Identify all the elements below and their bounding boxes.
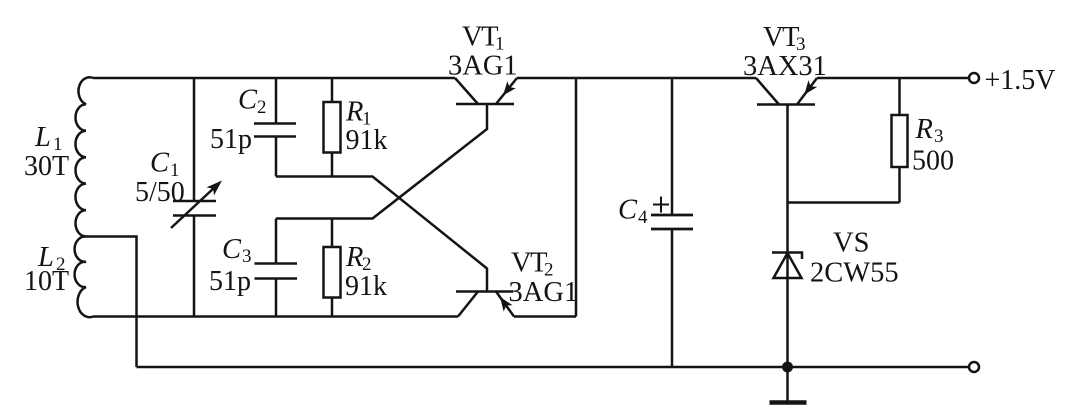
svg-text:30T: 30T [24, 151, 69, 182]
wire top rail middle segment [517, 77, 756, 80]
wire tap from coil [86, 237, 137, 368]
terminal +1.5V [969, 73, 979, 83]
capacitor C1 plates [173, 201, 216, 216]
transistor VT1 [456, 103, 514, 106]
svg-text:R: R [345, 97, 363, 128]
junction dot [782, 362, 793, 373]
wire cross coupling upper (to VT2 base) [276, 177, 487, 292]
svg-text:3: 3 [242, 246, 252, 267]
inductor L1 [75, 77, 93, 236]
svg-text:L: L [34, 122, 51, 153]
svg-text:VS: VS [833, 228, 869, 259]
svg-text:91k: 91k [346, 125, 388, 156]
svg-text:3AG1: 3AG1 [509, 277, 579, 308]
wire bottom wire [93, 315, 458, 318]
wire base to R3 bottom [788, 201, 900, 204]
wire bottom rail [137, 366, 970, 369]
capacitor C1 leads [193, 78, 196, 201]
svg-text:3: 3 [934, 126, 944, 147]
svg-text:C: C [150, 148, 170, 179]
svg-text:C: C [222, 234, 242, 265]
capacitor C4 plus sign [653, 197, 669, 213]
svg-text:4: 4 [638, 207, 648, 228]
svg-text:51p: 51p [209, 266, 251, 297]
svg-text:91k: 91k [345, 271, 387, 302]
wire VT3 base vertical [786, 105, 789, 368]
resistor R2 [331, 219, 334, 248]
svg-text:2CW55: 2CW55 [810, 258, 899, 289]
svg-text:3AG1: 3AG1 [448, 51, 518, 82]
svg-text:VT: VT [763, 22, 799, 53]
wire cross coupling lower (to VT1 base) [276, 104, 487, 219]
svg-text:5/50: 5/50 [135, 177, 185, 208]
resistor R1 [331, 78, 334, 102]
wire top rail left segment [93, 77, 455, 80]
svg-text:R: R [915, 114, 933, 145]
svg-text:500: 500 [912, 146, 954, 177]
svg-text:3AX31: 3AX31 [743, 51, 827, 82]
wire VT2 emitter to vertical [514, 315, 576, 318]
svg-text:VT: VT [511, 248, 547, 279]
wire top rail right segment [817, 77, 969, 80]
capacitor C4 plates [651, 215, 693, 229]
svg-text:10T: 10T [24, 266, 69, 297]
zener diode VS [772, 253, 802, 279]
terminal bottom right [969, 362, 979, 372]
capacitor C3 plates [255, 264, 298, 279]
svg-text:2: 2 [257, 97, 267, 118]
wire right vertical x576 [575, 78, 578, 317]
transistor VT3 [757, 103, 815, 106]
capacitor C3 leads [275, 219, 278, 264]
svg-text:VT: VT [462, 22, 498, 53]
ground [786, 367, 789, 401]
transistor VT2 [456, 290, 513, 293]
capacitor C4 leads [671, 78, 674, 215]
inductor L2 [75, 236, 93, 317]
svg-text:51p: 51p [210, 124, 252, 155]
svg-text:+1.5V: +1.5V [985, 65, 1056, 96]
svg-text:C: C [238, 85, 258, 116]
capacitor C2 leads [275, 78, 278, 124]
capacitor C2 plates [254, 124, 296, 137]
resistor R3 [898, 78, 901, 115]
svg-text:C: C [618, 195, 638, 226]
svg-text:R: R [345, 242, 363, 273]
capacitor C1 arrow [171, 187, 215, 228]
